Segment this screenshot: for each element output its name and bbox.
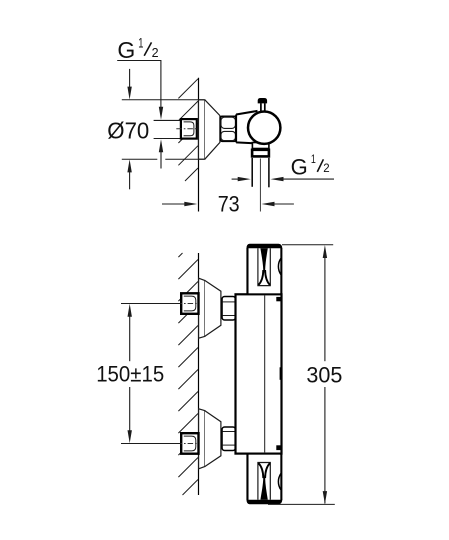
outlet coupling nut (top view) [252,150,269,157]
temperature knob (bottom view top knob) [247,244,283,294]
dim 73 left arrow [162,203,185,205]
thermostat housing (bottom view) [236,294,282,453]
wall face line (bottom view) [198,253,200,495]
svg-text:1: 1 [138,36,143,51]
axis centerline (top view square) [176,128,197,130]
dim 150 line + arrows [128,304,132,317]
outlet pipe (top view) [251,158,253,187]
svg-text:G: G [291,155,308,180]
svg-text:Ø70: Ø70 [107,118,149,144]
safestop button top [276,297,281,301]
dim 73 right arrow [262,202,275,206]
valve body (top view) [236,111,266,142]
temperature knob (top view circle) [248,112,280,144]
dim 150 extension bottom [121,443,181,445]
wall union bottom connection (escutcheon, nut, square) [177,409,236,469]
svg-text:2: 2 [152,46,159,60]
housing right edge clip [280,367,283,380]
housing front edge line [264,296,266,453]
leader G1/2 top [117,60,161,62]
svg-text:305: 305 [306,363,342,388]
outlet axis centerline / 73-dim right extension [259,159,261,212]
dim 305 extension top [282,244,333,246]
concealed union S-square (top view) [181,119,197,139]
svg-text:150±15: 150±15 [96,361,164,386]
arrow G1/2 to inlet top [159,107,163,120]
wall face line (top view) / 73-dim extension [198,78,200,212]
dim Ø70 arrow up [127,159,131,172]
inlet pipe stub (top view) [154,119,182,121]
svg-text:1: 1 [311,154,316,166]
svg-text:73: 73 [218,192,240,217]
escutcheon rosette (top view) [199,100,205,159]
dim Ø70 extension top [122,99,205,101]
dim 305 line + arrows [323,245,327,258]
union nut (top view) [220,116,236,141]
arrow G1/2 to inlet bottom [159,139,163,152]
wall hatching (bottom view) [178,253,198,495]
svg-text:2: 2 [323,163,329,175]
dim Ø70 arrow down [129,69,131,89]
ecobutton bottom [276,445,281,450]
dim G1/2 outlet right arrow + leader [271,177,284,181]
wall hatching (top view) [178,79,198,181]
dim G1/2 outlet left arrow [232,178,238,180]
flow knob (bottom view bottom knob) [247,454,283,505]
dim Ø70 extension bottom [122,158,158,160]
svg-text:G: G [117,37,135,63]
dim 305 extension bottom [268,503,335,505]
knob stem (top view) [258,98,267,103]
dim 150 extension top [121,303,181,305]
wall union top connection (escutcheon, nut, square) [177,278,236,338]
outlet neck (top view) [252,143,269,149]
